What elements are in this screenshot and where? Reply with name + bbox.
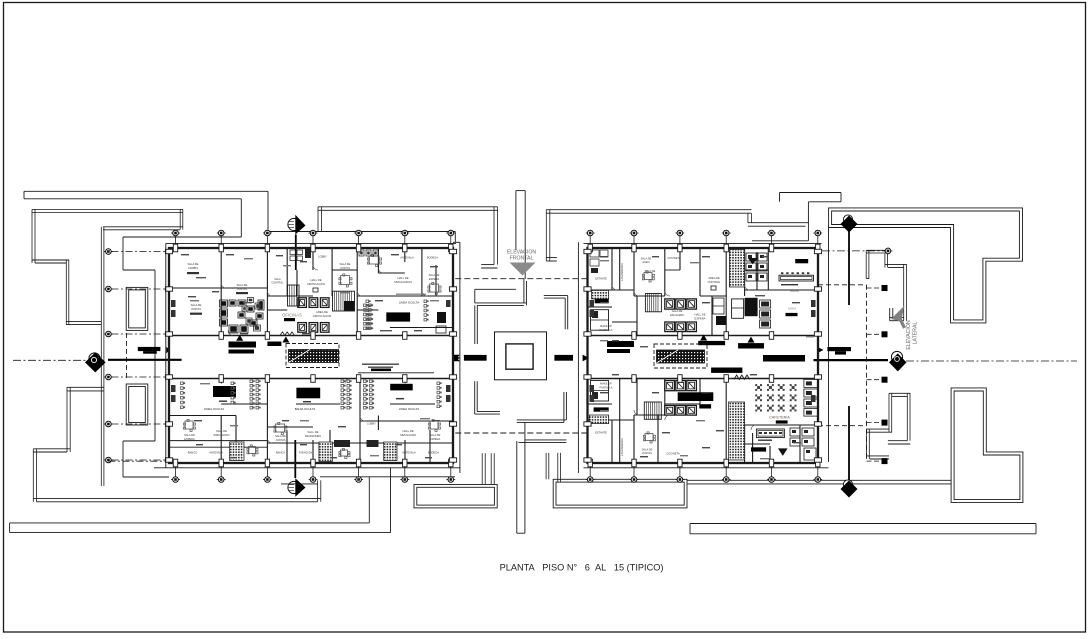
right building small fixtures top left	[590, 250, 599, 257]
left building extra furniture marks	[248, 298, 254, 303]
left building wall fixtures	[171, 300, 176, 307]
centreline dash-dot right	[906, 360, 1077, 362]
svg-text:JUNTAS: JUNTAS	[191, 307, 201, 311]
svg-text:BAHIA OCULTA: BAHIA OCULTA	[295, 407, 316, 411]
terrace bottom-right large	[951, 388, 1023, 503]
svg-text:SALA DE: SALA DE	[188, 262, 199, 266]
right building dot block bottom	[728, 402, 744, 460]
svg-text:ESTANTE: ESTANTE	[595, 431, 607, 435]
courtyard boundary lines	[459, 242, 461, 473]
long bottom-right bar	[690, 523, 1036, 525]
right building wall ticks	[588, 244, 592, 252]
right building bottom band partitions	[611, 420, 613, 463]
svg-text:SALL DE: SALL DE	[308, 430, 319, 434]
svg-text:MAKE UP: MAKE UP	[600, 324, 612, 328]
left building top band partitions	[220, 248, 222, 336]
svg-text:SIMULACROS: SIMULACROS	[394, 280, 412, 284]
grid bubbles left side rows	[104, 251, 113, 253]
svg-text:PANTALLA: PANTALLA	[600, 386, 613, 390]
right building big black blocks bottom	[678, 392, 714, 401]
svg-text:ELEVACION: ELEVACION	[906, 320, 912, 350]
corridor to plaza top	[515, 191, 517, 251]
right building stairs bottom	[644, 402, 661, 419]
right building centre dark cluster	[716, 316, 726, 325]
section marker right-building bottom	[848, 406, 850, 481]
walkway step lines top-right	[807, 202, 809, 241]
long bottom-left bar	[10, 522, 370, 524]
svg-text:SALA DE: SALA DE	[641, 257, 652, 261]
svg-text:CIRCULACION: CIRCULACION	[313, 314, 332, 318]
left building conference table top	[386, 312, 410, 321]
sala de juntas large top right	[369, 256, 379, 264]
left building bottom band suite1	[213, 386, 236, 397]
terrace steps right lower	[889, 392, 910, 394]
right building door arcs	[634, 291, 639, 296]
section marker right diamond	[891, 351, 902, 362]
walkway offset line left of left building	[165, 243, 167, 467]
plaza inner square	[506, 344, 533, 369]
left building bottom band suite3	[390, 384, 413, 391]
bottom bar below right building centre	[553, 479, 687, 508]
right core dashed	[654, 344, 707, 368]
svg-text:LINEA OCULTA: LINEA OCULTA	[399, 407, 419, 411]
grid bubbles top right building	[586, 232, 595, 234]
walkway offset line below right building	[584, 467, 829, 469]
terrace bottom-left steps	[67, 386, 104, 388]
right building fixtures centre top	[745, 298, 758, 316]
svg-text:LOBBY: LOBBY	[318, 255, 327, 259]
right building small room block	[732, 299, 744, 318]
terrace bar above right building	[546, 209, 751, 211]
svg-text:SALA DE: SALA DE	[429, 273, 440, 277]
right corridor sign	[711, 368, 742, 373]
svg-text:BODEGA: BODEGA	[428, 451, 439, 455]
left building bottom band suite2	[296, 388, 320, 399]
svg-text:FRONTAL: FRONTAL	[510, 256, 534, 262]
section line right	[814, 359, 889, 361]
right building top band horizontal walls	[588, 289, 635, 291]
right side grid squares	[867, 287, 882, 289]
svg-text:COCINETA: COCINETA	[666, 452, 679, 456]
svg-text:AREA DE: AREA DE	[316, 310, 328, 314]
left building bottom band partitions	[220, 416, 222, 464]
right building bath cluster top	[746, 253, 756, 261]
svg-text:SALA DE: SALA DE	[430, 433, 441, 437]
svg-text:SALL DE: SALL DE	[216, 429, 227, 433]
svg-text:SALA: SALA	[274, 278, 281, 281]
svg-text:COCINETA: COCINETA	[667, 256, 680, 260]
grid bubbles bottom right building	[586, 479, 595, 481]
centreline dash-dot left	[13, 359, 86, 361]
svg-text:JUNTAS: JUNTAS	[237, 287, 247, 291]
svg-text:BANCO: BANCO	[188, 451, 197, 455]
terrace bar below right building	[687, 479, 951, 481]
svg-text:LAVANDERIA: LAVANDERIA	[620, 263, 624, 281]
right corridor items	[607, 341, 634, 347]
terrace bar above left building	[318, 206, 498, 208]
svg-text:HALL DE: HALL DE	[310, 278, 321, 282]
left building top-left corner fixtures	[290, 250, 296, 255]
right corridor door arcs	[734, 375, 750, 379]
svg-text:REUNIONES: REUNIONES	[305, 434, 321, 438]
svg-text:ASEO: ASEO	[642, 260, 649, 264]
svg-text:BANCA: BANCA	[276, 451, 285, 455]
svg-text:ANTESALA: ANTESALA	[400, 256, 414, 260]
cafeteria tables	[757, 386, 760, 389]
svg-text:SALA DE: SALA DE	[672, 309, 683, 313]
svg-text:LOBBY: LOBBY	[367, 422, 376, 426]
right building stairs top	[645, 294, 661, 312]
svg-text:SIMULACRO: SIMULACRO	[214, 433, 230, 437]
terrace top-left T outline	[32, 208, 183, 210]
elevation frontal arrow	[510, 263, 536, 276]
section marker right-building top	[843, 215, 852, 224]
svg-text:JUNTAS: JUNTAS	[276, 438, 286, 442]
left building small wc marks	[359, 250, 364, 256]
svg-text:BODEGA: BODEGA	[427, 256, 438, 260]
right building bottom band horizontal walls	[588, 419, 635, 421]
walkway offset line above right building	[584, 242, 822, 244]
dash line bottom-left row	[108, 460, 170, 462]
svg-text:CONTROL: CONTROL	[271, 282, 284, 285]
section line left	[108, 359, 182, 361]
right building elevators bottom	[665, 381, 675, 391]
cafeteria counter	[756, 429, 784, 438]
svg-text:SIMULACRO: SIMULACRO	[400, 433, 416, 437]
walkway line above left building	[268, 231, 455, 233]
svg-text:ANTESALA: ANTESALA	[209, 451, 223, 455]
right building bottom right rooms	[778, 448, 788, 456]
right building outer wall	[588, 248, 819, 463]
courtyard arrow right	[554, 355, 573, 361]
grid bubbles bottom left building	[171, 479, 180, 481]
right building annotation smudges	[600, 256, 608, 257]
svg-text:SALA DE: SALA DE	[642, 448, 653, 452]
svg-text:LATERAL: LATERAL	[913, 322, 919, 345]
svg-text:ESTANTE: ESTANTE	[595, 277, 607, 281]
left building outer wall	[169, 248, 453, 463]
left corridor furniture	[229, 342, 257, 348]
grid bubbles top left building	[171, 232, 180, 234]
svg-text:SALA DE: SALA DE	[191, 303, 202, 307]
plaza corner bracket bottom-left	[474, 381, 476, 414]
right building corridor walls	[588, 335, 819, 337]
svg-text:CAMBIO: CAMBIO	[188, 266, 198, 270]
walkway line below left building	[154, 467, 460, 469]
planter left upper	[126, 287, 148, 330]
planter left lower	[126, 384, 148, 425]
plaza outer square	[495, 332, 547, 380]
left building stair core second	[288, 285, 300, 306]
right building left rooms top	[592, 290, 609, 299]
section marker left diamond	[89, 353, 100, 364]
terrace outline top-left long bar	[24, 190, 268, 192]
right building top band partitions	[611, 248, 613, 290]
svg-text:JUNTAS: JUNTAS	[642, 451, 652, 455]
svg-text:ESPERA: ESPERA	[184, 437, 195, 441]
svg-text:AREA DE: AREA DE	[708, 276, 720, 280]
dashed terrace right of right building	[818, 284, 867, 286]
right side grid bubble	[884, 250, 893, 252]
svg-text:CAFETERIA: CAFETERIA	[769, 415, 790, 419]
terrace steps right middle	[866, 249, 888, 251]
svg-text:MAKE UP: MAKE UP	[600, 382, 612, 386]
svg-text:SODA: SODA	[788, 307, 797, 311]
right building top right room	[748, 258, 758, 264]
left building elevator row upper	[298, 298, 307, 308]
svg-text:CONTROL: CONTROL	[708, 280, 721, 284]
right building left rooms bottom	[589, 415, 608, 424]
left building top band horizontal walls	[169, 287, 267, 289]
left building kitchen cluster	[220, 300, 228, 307]
svg-text:HALL DE: HALL DE	[694, 313, 705, 317]
section marker left-building top	[288, 218, 300, 230]
svg-text:ESPERA: ESPERA	[429, 277, 440, 281]
vertical walkway line right	[828, 228, 830, 463]
left building extra chair rows	[437, 382, 440, 385]
courtyard arrow left	[454, 355, 460, 362]
svg-text:ESPERA: ESPERA	[430, 437, 441, 441]
svg-text:PLANTA PISO N° 6 AL 15: PLANTA PISO N° 6 AL 15 (TIPICO)	[500, 562, 664, 572]
plaza corner bracket top-right	[544, 295, 568, 297]
left building corridor walls	[169, 335, 453, 337]
svg-text:ANTESALA: ANTESALA	[402, 451, 416, 455]
svg-text:HALL DE: HALL DE	[397, 276, 408, 280]
walkway step lines top-left	[123, 236, 241, 238]
svg-text:SALA DE: SALA DE	[340, 262, 351, 266]
left corridor text bars	[362, 364, 399, 365]
elevation lateral arrow	[891, 306, 905, 322]
svg-text:ESCALERA: ESCALERA	[670, 313, 684, 317]
svg-text:SALA DE: SALA DE	[275, 434, 286, 438]
svg-text:VENTILACION: VENTILACION	[307, 282, 325, 286]
section marker left-building bottom	[294, 440, 296, 478]
left building wall ticks	[173, 244, 177, 252]
svg-text:ATENCION: ATENCION	[299, 451, 312, 455]
corridor to plaza bottom	[516, 441, 518, 533]
left building stairs	[333, 291, 355, 311]
svg-text:OFICINAS: OFICINAS	[282, 313, 302, 318]
svg-text:PANTALLA: PANTALLA	[600, 328, 613, 332]
courtyard dashed lines	[455, 278, 587, 280]
left building row1 marks	[196, 277, 206, 278]
left building door arcs	[221, 283, 226, 288]
left building right end fixtures	[437, 312, 446, 323]
svg-text:SALA DE: SALA DE	[184, 433, 195, 437]
walkway offset line above left building	[166, 242, 456, 244]
right building wall fixtures	[590, 300, 595, 307]
svg-text:LAVANDERIA: LAVANDERIA	[620, 438, 624, 456]
right building bar counter	[779, 275, 814, 281]
svg-text:ESPERA: ESPERA	[695, 317, 706, 321]
left building annotation smudges	[181, 254, 189, 255]
bottom bar below left building	[414, 485, 497, 508]
svg-text:HALL DE: HALL DE	[402, 429, 413, 433]
left core dashed	[286, 344, 339, 368]
right building dot block top	[729, 250, 744, 288]
svg-text:LINEA OCULTA: LINEA OCULTA	[204, 407, 224, 411]
dashed connector between planters	[126, 333, 128, 381]
terrace top-right large	[829, 208, 1023, 323]
svg-text:SALA DE: SALA DE	[237, 283, 248, 287]
svg-text:LINEA OCULTA: LINEA OCULTA	[399, 301, 419, 305]
left building bottom band horizontal walls	[169, 415, 236, 417]
left building elevator row lower	[298, 323, 307, 333]
right building extra marks	[600, 260, 609, 261]
svg-text:JUNTAS: JUNTAS	[340, 266, 350, 270]
right building elevators top	[665, 299, 675, 309]
